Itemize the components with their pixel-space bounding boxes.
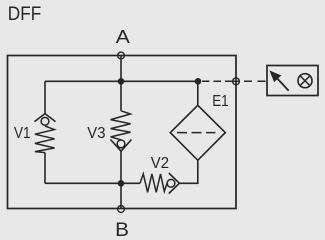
port B circle [118,206,125,213]
svg-text:E1: E1 [212,93,228,110]
junction dot bottom center [118,180,125,187]
enclosure boundary [8,56,237,209]
wire V3 to port B [120,151,122,209]
filter E1 body [170,105,225,160]
check valve V3 spring [111,111,131,140]
check valve V2 spring [140,174,167,192]
check valve V3 ball [117,140,125,148]
junction dot top center [118,78,125,85]
indicator arrow shaft [277,79,288,91]
bottom horizontal wire [45,182,140,184]
check valve V1 seat [35,114,56,122]
svg-text:DFF: DFF [8,4,41,25]
check valve V2 ball [167,179,175,187]
svg-text:B: B [115,219,129,240]
svg-text:V3: V3 [87,125,105,142]
check valve V1 spring [35,126,55,153]
dashed pilot line to indicator box [244,80,266,82]
wire from port A down to V3 [120,56,122,111]
check valve V3 seat [111,140,132,152]
check valve V1 ball [41,117,49,125]
filter E1 element dashed line [177,132,216,134]
indicator lamp circle [298,74,312,88]
svg-text:A: A [116,27,130,47]
check valve V2 seat [169,173,180,194]
top horizontal wire [45,80,198,82]
port circle on right edge [233,78,240,85]
indicator lamp cross [300,76,310,86]
indicator box [267,66,318,96]
wire E1 stem top [197,81,199,105]
svg-text:V2: V2 [151,155,169,172]
dashed pilot line to indicator [202,80,233,82]
wire V2 output to E1 stem [179,160,197,183]
svg-text:V1: V1 [14,125,31,142]
solid tick through right port circle [233,80,240,82]
wire V1 branch upper [44,81,46,114]
wire V1 branch lower [44,153,46,184]
junction dot at E1 branch [195,78,202,85]
indicator arrow head [270,71,280,81]
port A circle [118,52,125,59]
